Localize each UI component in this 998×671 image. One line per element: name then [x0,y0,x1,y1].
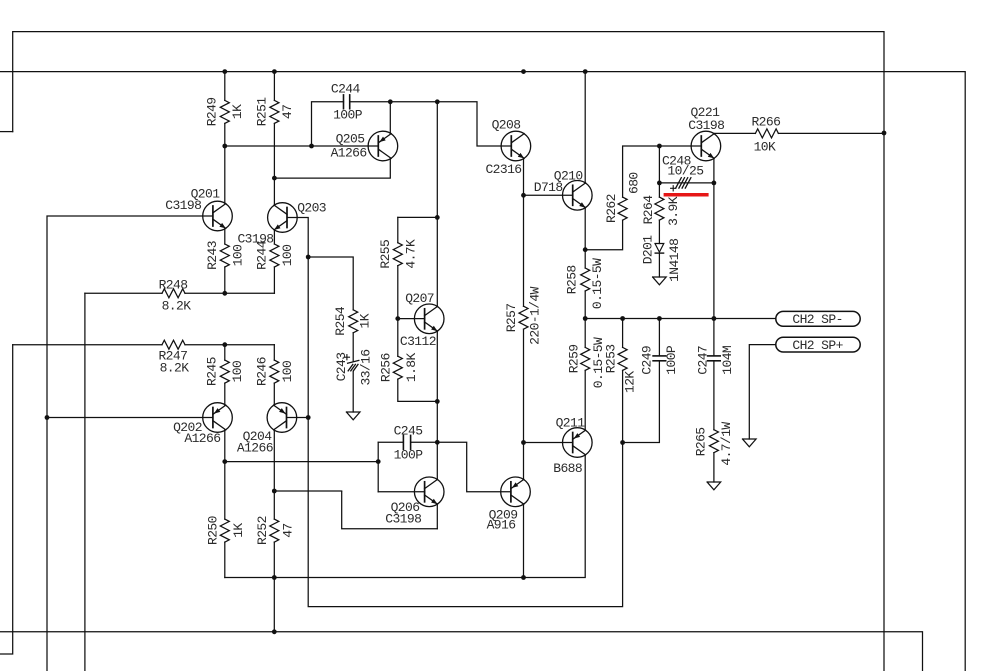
svg-text:A1266: A1266 [184,431,220,446]
svg-text:C244: C244 [331,82,361,97]
svg-text:8.2K: 8.2K [160,361,190,376]
svg-text:D718: D718 [534,180,563,195]
svg-text:C3198: C3198 [688,118,724,133]
svg-text:R243: R243 [205,241,220,270]
svg-text:C2316: C2316 [485,162,521,177]
svg-text:C247: C247 [696,346,711,375]
svg-text:100: 100 [280,361,295,383]
svg-text:A1266: A1266 [237,441,273,456]
svg-text:47: 47 [281,523,296,537]
svg-text:B688: B688 [553,461,582,476]
svg-text:C243: C243 [334,353,349,382]
svg-text:220-1/4W: 220-1/4W [528,286,543,344]
svg-text:100: 100 [230,361,245,383]
svg-text:C3112: C3112 [400,334,436,349]
svg-text:1K: 1K [231,523,246,538]
svg-text:Q203: Q203 [297,200,326,215]
svg-text:10/25: 10/25 [667,164,703,179]
svg-text:R264: R264 [641,195,656,225]
svg-text:R256: R256 [378,353,393,382]
svg-text:R265: R265 [694,427,709,456]
svg-text:R262: R262 [604,194,619,223]
svg-text:C245: C245 [394,423,423,438]
svg-text:Q208: Q208 [492,117,521,132]
svg-text:1N4148: 1N4148 [667,239,682,282]
svg-text:R259: R259 [566,344,581,373]
svg-text:104M: 104M [720,346,735,375]
svg-text:R255: R255 [378,240,393,269]
svg-text:1K: 1K [230,104,245,119]
svg-text:Q211: Q211 [556,416,586,431]
svg-text:R248: R248 [159,278,188,293]
svg-text:R249: R249 [205,97,220,126]
svg-text:4.7K: 4.7K [404,239,419,269]
svg-text:8.2K: 8.2K [162,298,192,313]
svg-text:3.9K: 3.9K [666,196,681,226]
svg-text:R244: R244 [255,240,270,270]
svg-text:1.8K: 1.8K [404,353,419,383]
svg-text:R254: R254 [333,306,348,336]
svg-text:D201: D201 [640,235,655,265]
svg-text:100P: 100P [394,447,424,462]
svg-text:R252: R252 [255,516,270,545]
svg-text:Q207: Q207 [405,291,434,306]
svg-text:R266: R266 [751,115,780,130]
svg-text:R257: R257 [504,303,519,332]
svg-text:C3198: C3198 [165,198,201,213]
svg-text:R258: R258 [565,265,580,294]
svg-text:CH2 SP-: CH2 SP- [792,312,842,327]
svg-text:100: 100 [280,245,295,267]
svg-text:4.7/1W: 4.7/1W [719,422,734,466]
svg-text:100P: 100P [333,108,363,123]
svg-text:CH2 SP+: CH2 SP+ [792,338,843,353]
svg-text:10K: 10K [754,139,776,154]
svg-text:R250: R250 [206,516,221,545]
svg-text:A1266: A1266 [331,145,367,160]
svg-text:Q205: Q205 [336,132,365,147]
svg-text:100P: 100P [664,345,679,375]
svg-text:100: 100 [230,245,245,267]
svg-text:12K: 12K [623,371,638,393]
svg-text:R246: R246 [254,357,269,386]
svg-text:R253: R253 [604,344,619,373]
svg-text:47: 47 [280,105,295,119]
svg-text:R245: R245 [205,357,220,386]
svg-text:33/16: 33/16 [359,349,374,385]
svg-text:C3198: C3198 [385,512,421,527]
svg-text:680: 680 [626,172,641,194]
svg-text:1K: 1K [358,313,373,328]
svg-text:0.15-5W: 0.15-5W [590,258,605,309]
svg-text:C249: C249 [640,346,655,375]
svg-text:A916: A916 [487,518,516,533]
svg-text:R251: R251 [255,97,270,127]
